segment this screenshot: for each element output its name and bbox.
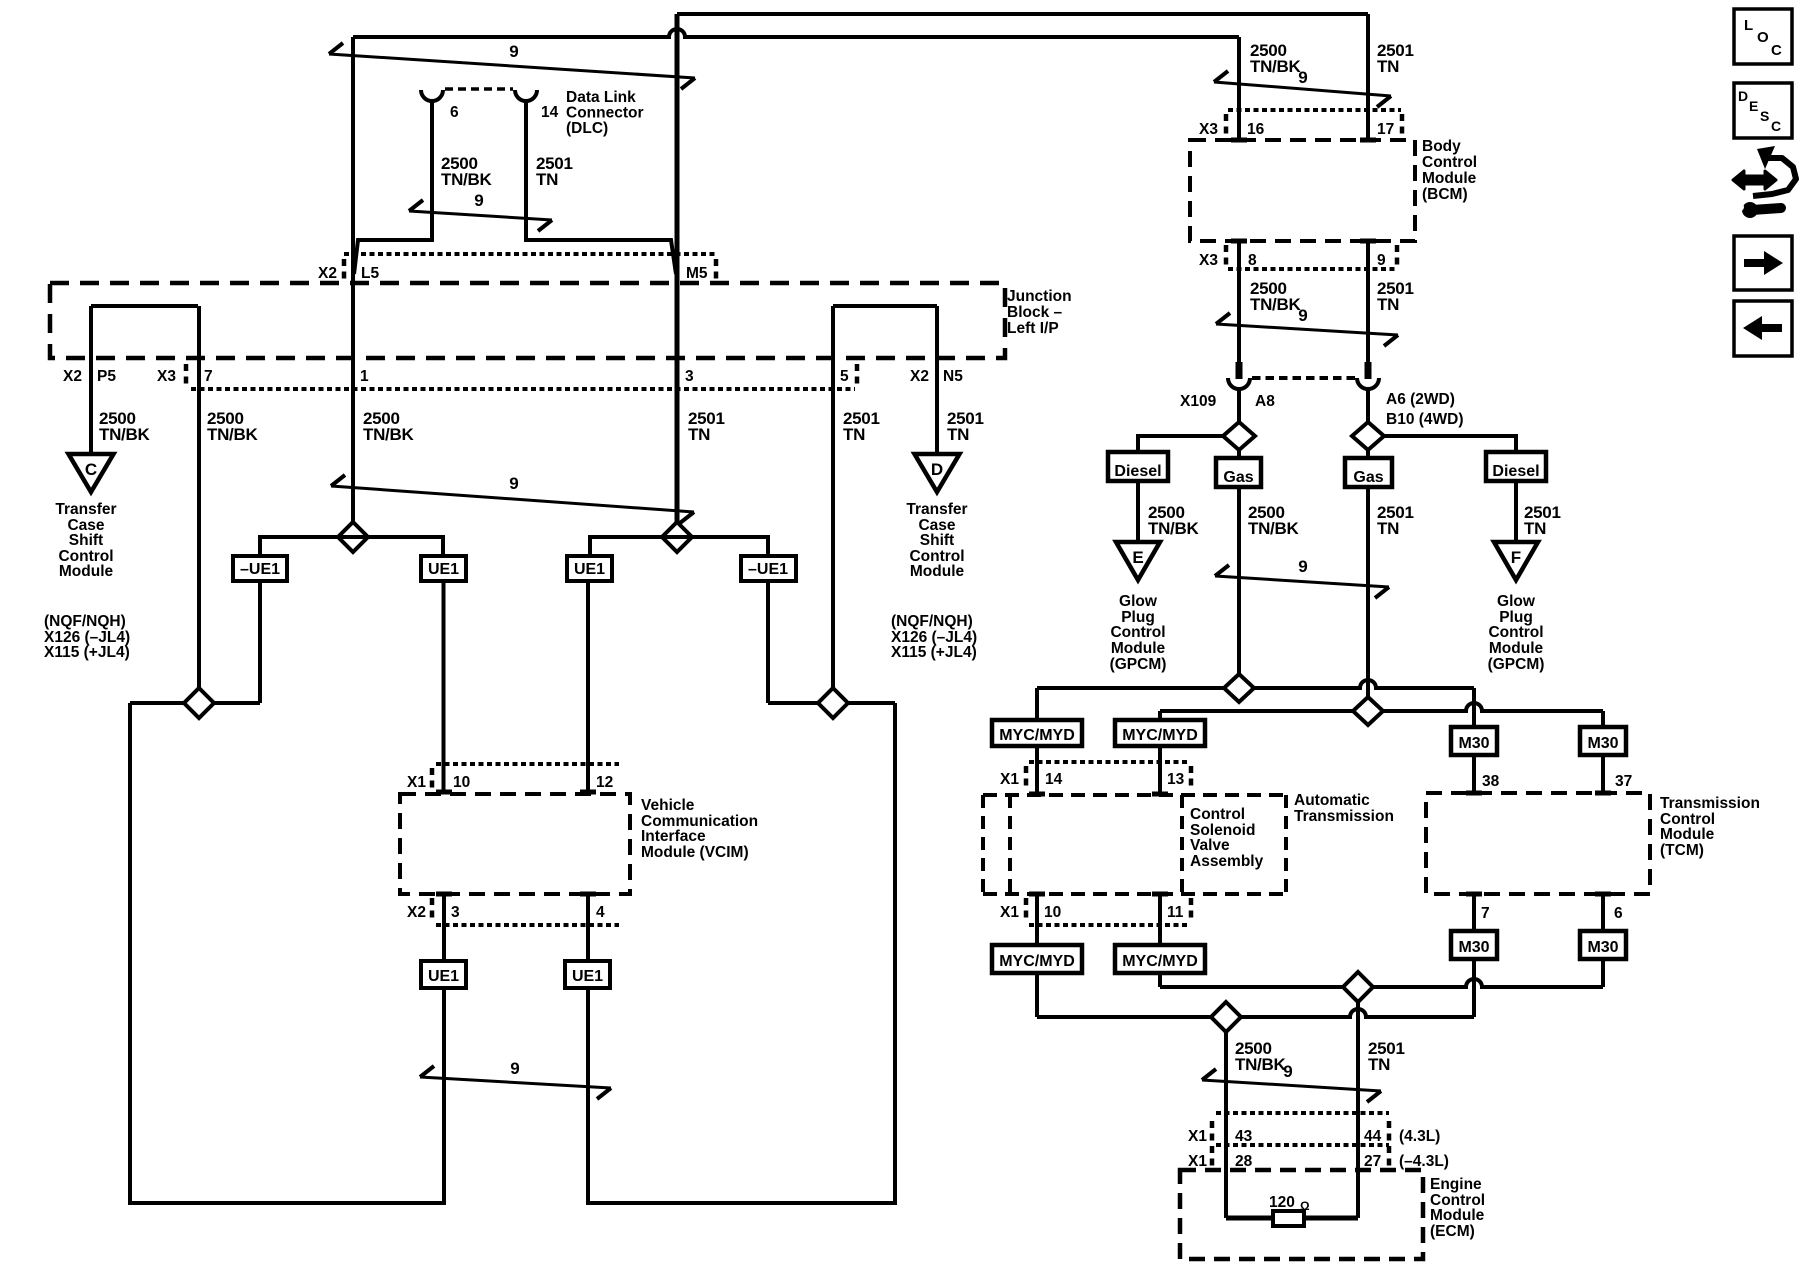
terminating resistor 120 ohm xyxy=(1273,1211,1304,1226)
wire pin 5 down to splice diamond xyxy=(831,306,835,689)
wire Diesel left to triangle E xyxy=(1136,481,1140,543)
terminal bar AT pin 11 xyxy=(1152,892,1168,897)
splice box UE1 (right inner) xyxy=(567,556,612,581)
svg-text:37: 37 xyxy=(1615,773,1632,790)
svg-text:TN: TN xyxy=(843,425,865,444)
wire M30 to TCM pin 37 xyxy=(1601,755,1605,791)
bus wire left at y703 xyxy=(130,701,260,705)
wire 2500 TN/BK down to ECM xyxy=(1224,1032,1228,1218)
svg-text:Assembly: Assembly xyxy=(1190,853,1264,870)
svg-text:X1: X1 xyxy=(1000,771,1019,788)
twisted pair crossing note 9 (gas wires) xyxy=(1215,557,1389,598)
splice diamond pin7 wire end xyxy=(184,688,214,718)
connector X2 separator dots (VCIM) xyxy=(430,898,435,918)
terminal bar TCM pin 7 xyxy=(1466,892,1482,897)
svg-text:Module: Module xyxy=(1111,640,1166,657)
svg-text:Interface: Interface xyxy=(641,828,706,845)
wire diamond to Diesel right xyxy=(1384,436,1516,452)
svg-text:Glow: Glow xyxy=(1497,593,1536,610)
wire MYC/MYD to AT pin 13 xyxy=(1158,746,1162,792)
terminal bar VCIM pin 12 xyxy=(580,790,596,795)
splice diamond on 2501 bus xyxy=(1353,697,1383,725)
ECM module dashed box xyxy=(1180,1170,1423,1259)
svg-text:9: 9 xyxy=(509,474,518,493)
twisted pair crossing note 9 (BCM bottom) xyxy=(1216,306,1398,346)
svg-text:Control: Control xyxy=(1190,806,1245,823)
svg-text:D: D xyxy=(1738,88,1748,104)
wire M30 pin6 down to 2501 bus xyxy=(1601,959,1605,987)
svg-text:Block –: Block – xyxy=(1007,304,1063,321)
splice box M30 (pin 38) xyxy=(1451,727,1497,755)
svg-text:13: 13 xyxy=(1167,771,1185,788)
svg-text:120: 120 xyxy=(1269,1194,1295,1211)
connector X3 separator dots xyxy=(184,364,189,384)
svg-text:(GPCM): (GPCM) xyxy=(1488,656,1545,673)
splice diamond on 2500 trunk (V1) xyxy=(338,522,368,552)
svg-text:14: 14 xyxy=(1045,771,1063,788)
wire diamond to Gas right xyxy=(1366,450,1370,458)
svg-text:Gas: Gas xyxy=(1223,469,1253,486)
wire below cup A6/B10 xyxy=(1366,388,1370,423)
svg-text:9: 9 xyxy=(1298,68,1307,87)
svg-text:1: 1 xyxy=(360,368,369,385)
splice diamond on 2501 trunk (V2) xyxy=(662,522,692,552)
wire 2501 bus right end down to M30 pin37 xyxy=(1601,711,1605,727)
svg-text:9: 9 xyxy=(1298,306,1307,325)
svg-text:X1: X1 xyxy=(1188,1153,1207,1170)
svg-text:L5: L5 xyxy=(361,265,379,282)
svg-text:TN/BK: TN/BK xyxy=(363,425,414,444)
svg-text:L: L xyxy=(1744,17,1753,34)
junction block dashed box xyxy=(50,283,1005,358)
female terminal cup X109 A8 xyxy=(1228,378,1250,389)
svg-text:P5: P5 xyxy=(97,368,116,385)
svg-text:27: 27 xyxy=(1364,1153,1381,1170)
svg-text:28: 28 xyxy=(1235,1153,1253,1170)
connector X1 separator dots (AT top) xyxy=(1024,766,1029,786)
wire 2501 TN top trunk H0 xyxy=(677,12,1368,16)
wire to terminating resistor right xyxy=(1304,1216,1358,1221)
splice box MYC/MYD (pin 10) xyxy=(992,945,1082,973)
svg-text:TN/BK: TN/BK xyxy=(1248,519,1299,538)
twisted pair crossing note 9 (DLC drop) xyxy=(409,191,552,231)
wire label 2501 TN (pin 5) xyxy=(843,409,880,444)
svg-text:X3: X3 xyxy=(1199,252,1218,269)
option box Gas (left) xyxy=(1216,458,1261,487)
wire label 2501 TN (DLC) xyxy=(536,154,573,189)
label Transfer Case Shift Control Module (right) xyxy=(906,501,967,580)
svg-text:X2: X2 xyxy=(63,368,82,385)
svg-text:C: C xyxy=(85,460,97,479)
twisted pair crossing note 9 (BCM top) xyxy=(1214,68,1391,107)
svg-text:Shift: Shift xyxy=(920,532,954,549)
svg-text:X109: X109 xyxy=(1180,393,1217,410)
DESC button box xyxy=(1734,83,1792,138)
terminal bar BCM pin 17 xyxy=(1360,138,1376,143)
DLC connector dashed link xyxy=(445,87,513,91)
label NQF/NQH options (right) xyxy=(891,613,977,661)
svg-text:Module: Module xyxy=(59,563,114,580)
svg-text:(BCM): (BCM) xyxy=(1422,186,1468,203)
wire Gas right down to transmission bus xyxy=(1366,487,1370,697)
connector separator dots (pin 44) xyxy=(1387,1121,1392,1141)
svg-text:F: F xyxy=(1511,548,1521,567)
option box Diesel (left) xyxy=(1108,452,1168,481)
connector separator dots (pin 9) xyxy=(1395,245,1400,265)
svg-text:9: 9 xyxy=(1377,252,1386,269)
wire label 2500 TN/BK (BCM top) xyxy=(1250,41,1301,76)
svg-text:TN/BK: TN/BK xyxy=(1250,295,1301,314)
wire right loop (down and around to VCIM pin 4 branch) xyxy=(588,703,895,1203)
terminal bar TCM pin 6 xyxy=(1595,892,1611,897)
svg-text:(GPCM): (GPCM) xyxy=(1110,656,1167,673)
wire label 2501 TN (ECM) xyxy=(1368,1039,1405,1074)
splice diamond on 2501 lower bus xyxy=(1343,972,1373,1002)
wire label 2500 TN/BK (pin 1) xyxy=(363,409,414,444)
wire UE1 right down to VCIM pin 12 xyxy=(586,581,590,792)
wire pin P5 down to triangle C xyxy=(89,306,93,455)
wire label 2500 TN/BK (ECM) xyxy=(1235,1039,1286,1074)
wire Diesel right to triangle F xyxy=(1514,481,1518,543)
svg-text:10: 10 xyxy=(1044,904,1061,921)
twisted pair crossing note 9 (ECM) xyxy=(1202,1062,1381,1102)
svg-text:TN: TN xyxy=(1377,295,1399,314)
splice box -UE1 (far left) xyxy=(233,556,287,581)
svg-text:7: 7 xyxy=(204,368,213,385)
label Junction Block Left I/P xyxy=(1007,288,1072,337)
wire label 2500 TN/BK (BCM bottom) xyxy=(1250,279,1301,314)
terminal bar BCM pin 9 xyxy=(1360,239,1376,244)
svg-text:TN/BK: TN/BK xyxy=(99,425,150,444)
splice diamond pin5 wire end xyxy=(818,688,848,718)
svg-text:X1: X1 xyxy=(1000,904,1019,921)
wire to terminating resistor left xyxy=(1226,1216,1273,1221)
wire 2500 bus left end down to MYC/MYD xyxy=(1035,688,1039,720)
bus wire right at y703 xyxy=(768,701,895,705)
wire MYC/MYD to AT pin 14 xyxy=(1035,746,1039,792)
svg-text:7: 7 xyxy=(1481,905,1490,922)
svg-text:M30: M30 xyxy=(1587,939,1618,956)
svg-text:(DLC): (DLC) xyxy=(566,120,608,137)
wire from DLC pin 6 xyxy=(354,100,432,274)
svg-text:TN/BK: TN/BK xyxy=(1235,1055,1286,1074)
wire label 2500 TN/BK (glow plug left) xyxy=(1148,503,1199,538)
wire pin N5 down to triangle D xyxy=(935,306,939,455)
splice box MYC/MYD (pin 14) xyxy=(992,720,1082,746)
label Glow Plug Control Module (GPCM) left xyxy=(1110,593,1167,673)
svg-text:6: 6 xyxy=(450,104,459,121)
splice bus left of V1 diamond xyxy=(260,537,443,556)
wire label 2501 TN (BCM bottom) xyxy=(1377,279,1414,314)
male terminal pin A6/B10 xyxy=(1365,362,1372,379)
splice box M30 (pin 7) xyxy=(1451,931,1497,959)
svg-text:Vehicle: Vehicle xyxy=(641,797,695,814)
connector X1 row dotted line (ECM non 4.3L) xyxy=(1216,1143,1389,1147)
connector X1 row dotted line (AT top) xyxy=(1029,760,1188,764)
svg-text:Engine: Engine xyxy=(1430,1176,1482,1193)
svg-text:Transfer: Transfer xyxy=(55,501,116,518)
wire BCM pin 17 drop xyxy=(1366,14,1370,138)
svg-text:MYC/MYD: MYC/MYD xyxy=(999,953,1075,970)
splice box M30 (pin 6) xyxy=(1580,931,1626,959)
Automatic Transmission dashed box bottom edge xyxy=(983,892,1286,896)
svg-text:Transfer: Transfer xyxy=(906,501,967,518)
splice diamond (2501 fuel split) xyxy=(1352,422,1384,450)
terminal bar TCM pin 37 xyxy=(1595,791,1611,796)
Automatic Transmission dashed inner edge xyxy=(1008,795,1012,894)
Control Solenoid Valve Assembly dashed box right edge xyxy=(1284,795,1288,894)
DLC pin 14 terminal cup xyxy=(515,90,537,101)
wire BCM pin 16 drop xyxy=(1237,37,1241,138)
wire left loop (down and around to VCIM pin 3 branch) xyxy=(130,703,444,1203)
connector X2 separator dots left xyxy=(342,259,347,279)
svg-text:Automatic: Automatic xyxy=(1294,792,1370,809)
svg-text:N5: N5 xyxy=(943,368,963,385)
svg-text:X3: X3 xyxy=(157,368,176,385)
svg-text:MYC/MYD: MYC/MYD xyxy=(1122,727,1198,744)
terminal bar BCM pin 8 xyxy=(1231,239,1247,244)
svg-text:MYC/MYD: MYC/MYD xyxy=(1122,953,1198,970)
splice diamond on 2500 lower bus xyxy=(1211,1002,1241,1032)
svg-text:Ω: Ω xyxy=(1300,1199,1310,1213)
svg-text:X1: X1 xyxy=(1188,1128,1207,1145)
wire 2501 TN down to ECM xyxy=(1356,1002,1360,1218)
label Transfer Case Shift Control Module (left) xyxy=(55,501,116,580)
connector X2 row dotted line (VCIM bottom) xyxy=(436,923,619,927)
bus wire 2501 (y987) with hop over pin7 wire xyxy=(1160,979,1603,987)
wire vertical V2 2501 TN xyxy=(675,14,680,523)
Automatic Transmission dashed box left edge xyxy=(981,795,985,894)
svg-text:(ECM): (ECM) xyxy=(1430,1223,1475,1240)
DLC pin 6 terminal cup xyxy=(421,90,443,101)
svg-text:C: C xyxy=(1771,42,1782,59)
wire label 2501 TN (BCM top) xyxy=(1377,41,1414,76)
terminal bar AT pin 14 xyxy=(1029,792,1045,797)
svg-text:C: C xyxy=(1771,118,1781,134)
wire label 2501 TN (pin 3) xyxy=(688,409,725,444)
svg-text:X2: X2 xyxy=(407,904,426,921)
terminal bar VCIM pin 4 xyxy=(580,892,596,897)
terminal bar VCIM pin 10 xyxy=(436,790,452,795)
connector X3 row dotted line (BCM bottom) xyxy=(1228,267,1396,271)
wire TCM pin 7 down xyxy=(1472,894,1476,931)
Control Solenoid Valve Assembly dashed box left edge xyxy=(1180,795,1184,894)
splice box UE1 (VCIM pin 4) xyxy=(565,961,610,988)
wire VCIM pin 4 down xyxy=(586,894,590,961)
svg-text:Diesel: Diesel xyxy=(1492,463,1539,480)
svg-text:X3: X3 xyxy=(1199,121,1218,138)
wire pin 7 down to splice diamond xyxy=(197,306,201,689)
svg-text:Module: Module xyxy=(1422,170,1477,187)
connector separator dots (pin 5) xyxy=(855,364,860,384)
connector X3 row dotted line xyxy=(191,387,855,391)
connector X3 separator dots (BCM top) xyxy=(1224,114,1229,134)
svg-text:X2: X2 xyxy=(318,265,337,282)
wire VCIM pin 3 down xyxy=(442,894,446,961)
svg-text:43: 43 xyxy=(1235,1128,1253,1145)
wire label 2501 TN (glow plug right) xyxy=(1524,503,1561,538)
svg-text:MYC/MYD: MYC/MYD xyxy=(999,727,1075,744)
svg-text:3: 3 xyxy=(451,904,460,921)
connector triangle F xyxy=(1494,542,1538,580)
svg-text:Module: Module xyxy=(1430,1207,1485,1224)
wire 2500 TN/BK top trunk H1 with hop over V2 xyxy=(353,29,1239,37)
svg-text:S: S xyxy=(1760,108,1769,124)
wire junction block internal right (5 to N5) xyxy=(833,304,937,308)
label Glow Plug Control Module (GPCM) right xyxy=(1488,593,1545,673)
svg-text:Module: Module xyxy=(1489,640,1544,657)
svg-text:9: 9 xyxy=(1298,557,1307,576)
svg-text:A8: A8 xyxy=(1255,393,1275,410)
twisted pair crossing note 9 (below VCIM) xyxy=(420,1059,611,1099)
wire diamond to Diesel left xyxy=(1138,436,1223,452)
svg-text:Diesel: Diesel xyxy=(1114,463,1161,480)
svg-text:X115 (+JL4): X115 (+JL4) xyxy=(44,644,130,661)
svg-text:TN: TN xyxy=(1377,519,1399,538)
reference tool icon (double arrow with wrench) xyxy=(1733,146,1796,218)
splice box M30 (pin 37) xyxy=(1580,727,1626,755)
svg-text:E: E xyxy=(1132,548,1143,567)
connector triangle D xyxy=(915,454,960,492)
svg-text:(NQF/NQH): (NQF/NQH) xyxy=(891,613,973,630)
wire label 2501 TN (N5) xyxy=(947,409,984,444)
connector separator dots (pin 17) xyxy=(1400,114,1405,134)
svg-text:6: 6 xyxy=(1614,905,1623,922)
wire label 2500 TN/BK (P5) xyxy=(99,409,150,444)
wire from DLC pin 14 xyxy=(526,100,676,274)
svg-text:(–4.3L): (–4.3L) xyxy=(1399,1153,1449,1170)
connector separator dots (pin 27) xyxy=(1387,1146,1392,1166)
svg-text:–UE1: –UE1 xyxy=(748,561,788,578)
svg-text:TN: TN xyxy=(1377,57,1399,76)
svg-text:TN/BK: TN/BK xyxy=(207,425,258,444)
terminal bar BCM pin 16 xyxy=(1231,138,1247,143)
wire M30 pin7 down to 2500 bus (hops 2501 bus) xyxy=(1472,959,1476,1017)
svg-text:9: 9 xyxy=(1283,1062,1292,1081)
connector X1 separator dots (ECM row 1) xyxy=(1210,1121,1215,1141)
svg-text:Module: Module xyxy=(1660,826,1715,843)
svg-text:TN: TN xyxy=(1368,1055,1390,1074)
bus wire 2500 (y1017) with hop over 2501 drop xyxy=(1037,1009,1474,1017)
connector X1 separator dots (ECM row 2) xyxy=(1210,1146,1215,1166)
wire -UE1 left down to bus xyxy=(258,581,262,703)
svg-text:X115 (+JL4): X115 (+JL4) xyxy=(891,644,977,661)
svg-text:4: 4 xyxy=(596,904,605,921)
svg-text:(4.3L): (4.3L) xyxy=(1399,1128,1440,1145)
svg-text:Connector: Connector xyxy=(566,105,644,122)
svg-text:38: 38 xyxy=(1482,773,1500,790)
connector X1 row dotted line (AT bottom) xyxy=(1029,923,1188,927)
svg-text:14: 14 xyxy=(541,104,559,121)
wire diamond to Gas left xyxy=(1237,450,1241,458)
label Automatic Transmission xyxy=(1294,792,1394,825)
TCM module dashed box xyxy=(1426,793,1650,894)
svg-text:Left I/P: Left I/P xyxy=(1007,320,1059,337)
label Control Solenoid Valve Assembly xyxy=(1190,806,1264,870)
LOC button box xyxy=(1734,9,1792,64)
label Data Link Connector (DLC) xyxy=(566,89,644,137)
wire junction block internal left (P5 to 7) xyxy=(91,304,198,308)
wire TCM pin 6 down xyxy=(1601,894,1605,931)
svg-text:9: 9 xyxy=(510,1059,519,1078)
wire label 2501 TN (gas drop) xyxy=(1377,503,1414,538)
svg-text:12: 12 xyxy=(596,774,613,791)
connector triangle C xyxy=(69,454,114,492)
Automatic Transmission dashed box top edge xyxy=(983,793,1286,797)
svg-text:Module: Module xyxy=(910,563,965,580)
wire UE1 left down to VCIM pin 10 xyxy=(442,581,446,792)
svg-text:5: 5 xyxy=(840,368,849,385)
splice box MYC/MYD (pin 13) xyxy=(1115,720,1205,746)
svg-text:Control: Control xyxy=(1110,624,1165,641)
svg-text:M30: M30 xyxy=(1458,735,1489,752)
connector X109 dashed link xyxy=(1252,376,1355,380)
svg-text:Control: Control xyxy=(1422,154,1477,171)
wire vertical V1 2500 TN/BK xyxy=(351,37,355,523)
svg-text:UE1: UE1 xyxy=(428,968,459,985)
connector separator dots (pin 13) xyxy=(1189,766,1194,786)
svg-text:B10 (4WD): B10 (4WD) xyxy=(1386,411,1464,428)
wire BCM pin 9 down xyxy=(1366,241,1370,363)
svg-text:Junction: Junction xyxy=(1007,288,1072,305)
wire MYC/MYD pin10 down to 2500 bus xyxy=(1035,973,1039,1017)
wire below cup A8 xyxy=(1237,388,1241,423)
svg-text:TN: TN xyxy=(1524,519,1546,538)
svg-text:3: 3 xyxy=(685,368,694,385)
splice bus at V2 diamond xyxy=(590,537,768,556)
left arrow button box xyxy=(1734,301,1792,356)
wire 2500 bus right end down to M30 pin38 xyxy=(1472,688,1476,727)
svg-text:E: E xyxy=(1749,98,1758,114)
svg-text:M30: M30 xyxy=(1587,735,1618,752)
svg-text:Glow: Glow xyxy=(1119,593,1158,610)
connector X1 row dotted line (ECM 4.3L) xyxy=(1216,1111,1389,1115)
connector X2 row L5 M5 dotted line xyxy=(344,252,716,256)
svg-text:Transmission: Transmission xyxy=(1660,795,1760,812)
label Body Control Module (BCM) xyxy=(1422,138,1477,203)
svg-text:X1: X1 xyxy=(407,774,426,791)
splice box -UE1 (far right) xyxy=(741,556,796,581)
wire 2501 bus left end down to MYC/MYD xyxy=(1158,711,1162,720)
splice box UE1 (left inner) xyxy=(421,556,466,581)
svg-text:O: O xyxy=(1757,29,1769,46)
svg-text:(TCM): (TCM) xyxy=(1660,842,1704,859)
svg-text:TN: TN xyxy=(947,425,969,444)
svg-text:X2: X2 xyxy=(910,368,929,385)
svg-text:UE1: UE1 xyxy=(574,561,605,578)
svg-text:UE1: UE1 xyxy=(428,561,459,578)
label Engine Control Module (ECM) xyxy=(1430,1176,1485,1240)
svg-text:Body: Body xyxy=(1422,138,1461,155)
splice diamond (2500 fuel split) xyxy=(1223,422,1255,450)
svg-text:UE1: UE1 xyxy=(572,968,603,985)
svg-text:8: 8 xyxy=(1248,252,1257,269)
svg-text:D: D xyxy=(931,460,943,479)
svg-text:(NQF/NQH): (NQF/NQH) xyxy=(44,613,126,630)
wire Gas left down to transmission bus xyxy=(1237,487,1241,674)
female terminal cup A6/B10 xyxy=(1357,378,1379,389)
connector X3 separator dots (BCM bottom) xyxy=(1224,245,1229,265)
splice box MYC/MYD (pin 11) xyxy=(1115,945,1205,973)
connector X1 separator dots (AT bottom) xyxy=(1024,898,1029,918)
svg-text:TN/BK: TN/BK xyxy=(441,170,492,189)
terminal bar VCIM pin 3 xyxy=(436,892,452,897)
svg-text:M30: M30 xyxy=(1458,939,1489,956)
connector X2 separator dots right xyxy=(714,259,719,279)
svg-text:Valve: Valve xyxy=(1190,837,1230,854)
option box Diesel (right) xyxy=(1486,452,1546,481)
wire MYC/MYD pin11 down to 2501 bus xyxy=(1158,973,1162,987)
